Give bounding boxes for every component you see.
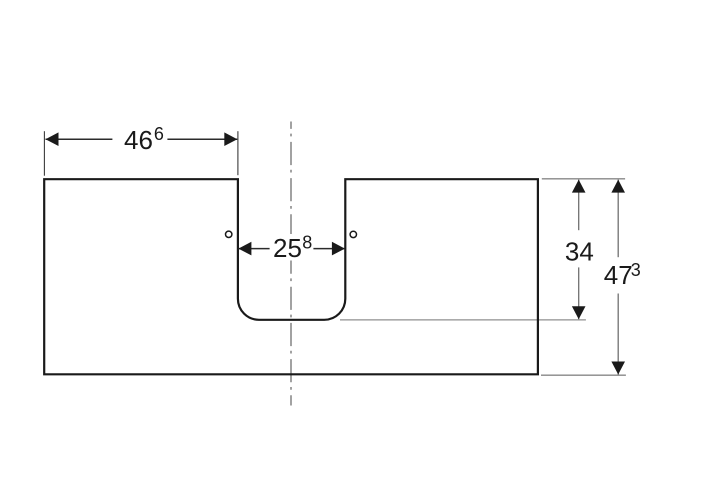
svg-text:6: 6 xyxy=(154,124,164,144)
svg-text:25: 25 xyxy=(273,233,302,263)
svg-text:3: 3 xyxy=(631,260,641,280)
svg-text:8: 8 xyxy=(302,233,312,253)
svg-text:46: 46 xyxy=(124,125,153,155)
svg-text:34: 34 xyxy=(565,236,594,266)
svg-text:47: 47 xyxy=(604,260,633,290)
